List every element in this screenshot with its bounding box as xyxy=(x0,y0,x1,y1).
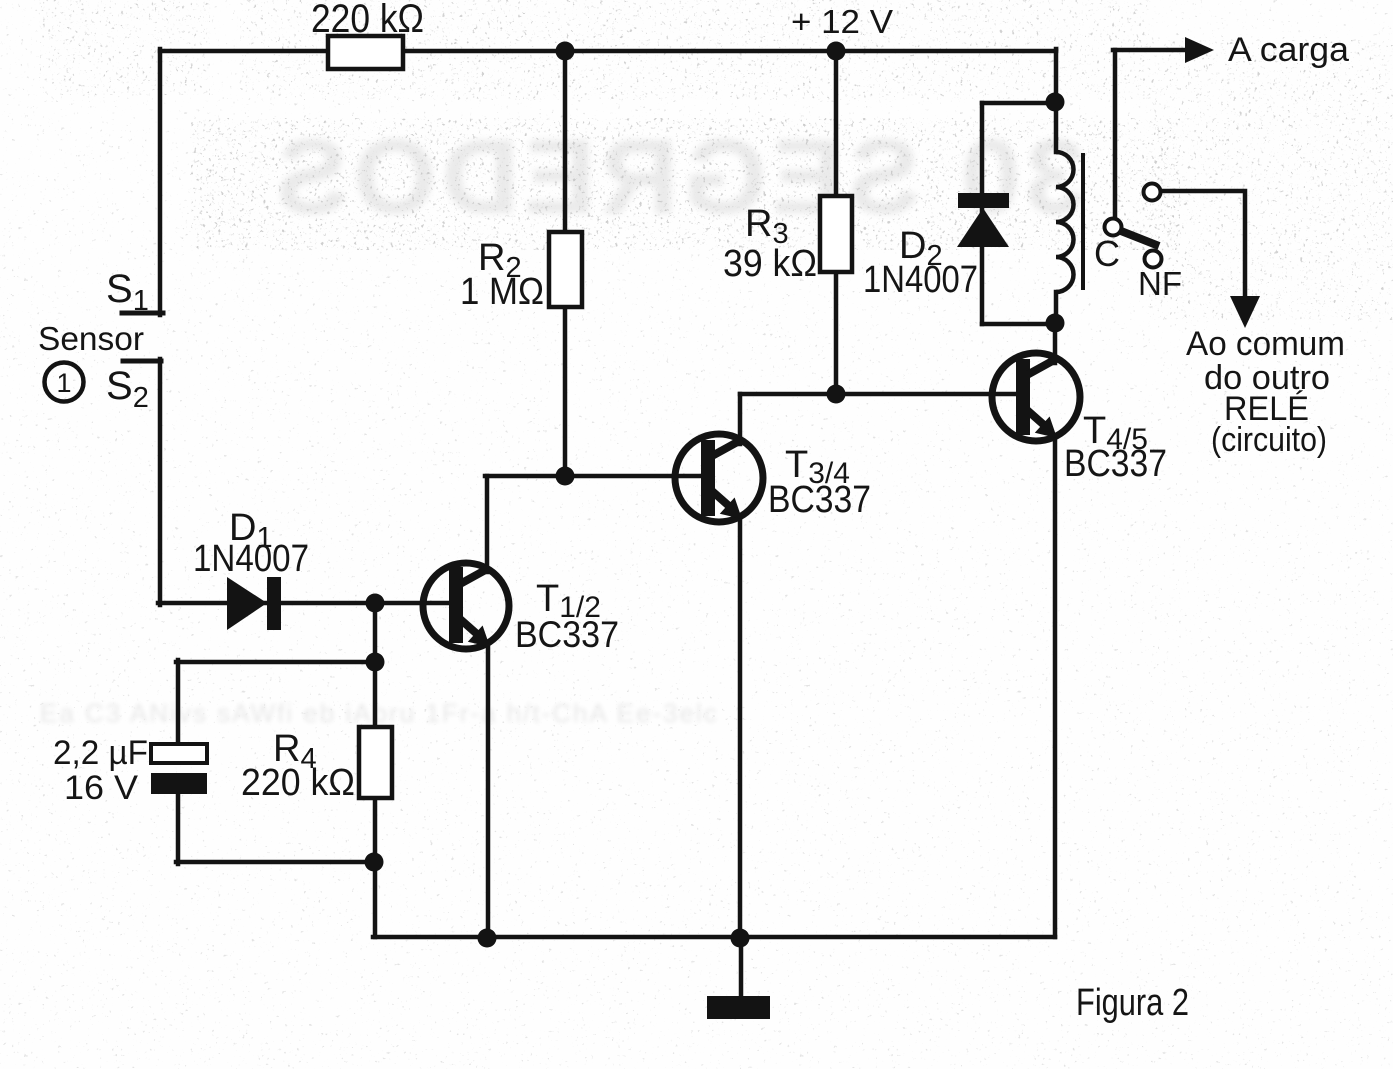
node R3 bottom / T4 base xyxy=(827,385,846,404)
relay contact C terminal xyxy=(1105,219,1122,236)
svg-text:Sensor: Sensor xyxy=(38,320,144,357)
transistor T1/2 xyxy=(423,563,509,649)
wire T1 collector riser xyxy=(485,476,490,572)
svg-text:Figura 2: Figura 2 xyxy=(1076,982,1189,1024)
node loop top xyxy=(366,653,385,672)
wire relay coil leads xyxy=(1054,103,1059,152)
wire coil lower lead xyxy=(1054,292,1059,324)
switch S1 contact tick xyxy=(122,311,163,316)
svg-text:2,2 µF: 2,2 µF xyxy=(53,734,148,772)
wire relay frame top xyxy=(982,101,1056,106)
svg-text:1: 1 xyxy=(56,368,71,398)
node T3 emitter / ground on rail xyxy=(731,929,750,948)
svg-text:220 kΩ: 220 kΩ xyxy=(311,0,424,41)
wire relay common lead xyxy=(1113,50,1118,217)
resistor R2 xyxy=(549,232,582,307)
relay contact arm xyxy=(1121,231,1159,246)
wire capacitor bottom lead xyxy=(176,792,181,864)
relay coil K1 xyxy=(1056,152,1074,292)
svg-text:1 MΩ: 1 MΩ xyxy=(460,271,544,313)
node R2 bottom / T3 base xyxy=(556,467,575,486)
svg-text:NF: NF xyxy=(1138,265,1182,302)
junction node dots xyxy=(365,42,1065,948)
wire R2 vertical branch xyxy=(563,51,568,476)
svg-text:1N4007: 1N4007 xyxy=(863,259,978,301)
wire capacitor top lead xyxy=(176,660,181,747)
scan ghost bleed-through text xyxy=(271,118,1085,236)
sensor number circle xyxy=(45,363,84,402)
relay contact NF terminal xyxy=(1145,251,1162,268)
svg-text:(circuito): (circuito) xyxy=(1211,421,1327,459)
capacitor C1 2.2uF xyxy=(151,744,207,794)
arrowhead to other relay xyxy=(1230,296,1260,328)
node relay frame bottom xyxy=(1046,314,1065,333)
wire ground stub xyxy=(739,935,744,1000)
svg-text:BC337: BC337 xyxy=(1064,443,1167,485)
svg-text:+ 12 V: + 12 V xyxy=(791,3,893,40)
svg-text:Ea C3 ANivs sAWfi eb iAbru 1: Ea C3 ANivs sAWfi eb iAbru 1Fr-a h/t-ChA… xyxy=(40,698,719,728)
node D1 cathode junction xyxy=(366,594,385,613)
wire R3 vertical branch xyxy=(834,51,839,394)
wire bottom ground rail xyxy=(373,935,1055,940)
svg-text:C: C xyxy=(1094,233,1120,274)
diode D1 xyxy=(227,577,281,630)
wire T3 emitter drop xyxy=(738,516,743,937)
svg-text:Ao comum: Ao comum xyxy=(1186,325,1345,363)
wire S2 vertical down xyxy=(158,359,163,605)
wire loop top xyxy=(176,660,375,665)
wire +12V corner down to relay xyxy=(1054,49,1059,103)
wire T1 emitter drop xyxy=(486,644,491,937)
wire junction drop to timing loop xyxy=(373,603,378,664)
wire T1 collector to R2 and T3 base xyxy=(485,474,704,479)
node +12V / R3 top xyxy=(827,42,846,61)
transistor T4/5 xyxy=(992,353,1080,441)
wire A carga arrow line xyxy=(1113,48,1190,53)
svg-text:16 V: 16 V xyxy=(64,769,138,807)
wire top rail xyxy=(160,49,1056,54)
node loop bottom xyxy=(365,853,384,872)
arrowhead A carga xyxy=(1185,37,1214,63)
resistor R4 xyxy=(359,727,392,798)
svg-text:220 kΩ: 220 kΩ xyxy=(241,762,355,804)
wire D2 branch xyxy=(980,103,985,324)
wire left vertical to S1 xyxy=(158,49,163,315)
wire T3 collector riser xyxy=(738,394,743,444)
wire R4 branch vertical xyxy=(373,662,378,937)
svg-text:39 kΩ: 39 kΩ xyxy=(723,243,817,285)
node relay frame top xyxy=(1046,93,1065,112)
wire T4 collector xyxy=(1053,322,1058,363)
wire relay frame bottom xyxy=(982,322,1056,327)
wire NO contact to other relay xyxy=(1161,191,1245,299)
resistor R1 220k xyxy=(328,36,403,69)
wire loop bottom xyxy=(176,860,374,865)
relay core bar xyxy=(1081,153,1085,290)
resistor R3 xyxy=(820,196,852,272)
svg-text:BC337: BC337 xyxy=(768,479,871,521)
svg-text:A carga: A carga xyxy=(1228,31,1349,69)
node R2 top xyxy=(556,42,575,61)
ground symbol xyxy=(707,996,770,1019)
switch S2 contact tick xyxy=(123,359,161,364)
wire T4 emitter drop xyxy=(1053,435,1058,937)
node T1 emitter on rail xyxy=(478,929,497,948)
relay contact NO terminal xyxy=(1144,184,1161,201)
wire T3 collector to R3 and T4 base xyxy=(740,392,1019,397)
svg-text:1N4007: 1N4007 xyxy=(193,538,309,580)
wire sensor row to T1 base xyxy=(158,601,451,606)
transistor T3/4 xyxy=(675,434,763,522)
svg-text:BC337: BC337 xyxy=(515,614,619,655)
diode D2 xyxy=(957,193,1009,247)
